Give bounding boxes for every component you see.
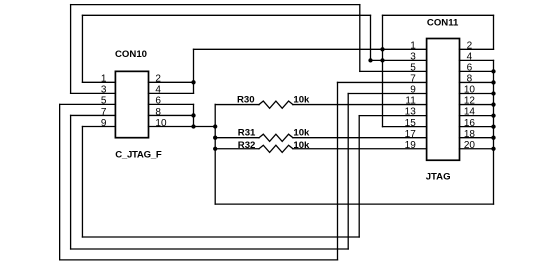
svg-text:6: 6 [467, 63, 473, 74]
svg-text:CON11: CON11 [427, 17, 459, 28]
svg-text:9: 9 [410, 85, 416, 96]
svg-text:5: 5 [410, 63, 416, 74]
svg-text:13: 13 [405, 107, 417, 118]
svg-text:2: 2 [155, 74, 161, 85]
svg-text:3: 3 [410, 51, 416, 62]
svg-text:R31: R31 [238, 128, 256, 139]
svg-text:19: 19 [405, 140, 417, 151]
svg-text:8: 8 [467, 74, 473, 85]
svg-text:20: 20 [464, 140, 476, 151]
svg-text:2: 2 [467, 40, 473, 51]
svg-text:CON10: CON10 [115, 49, 147, 60]
svg-text:5: 5 [101, 96, 107, 107]
svg-text:8: 8 [155, 107, 161, 118]
svg-text:12: 12 [464, 96, 476, 107]
svg-text:14: 14 [464, 107, 476, 118]
svg-text:R30: R30 [237, 94, 255, 105]
svg-text:4: 4 [467, 51, 473, 62]
svg-text:10k: 10k [293, 140, 310, 151]
svg-text:18: 18 [464, 129, 476, 140]
svg-text:10k: 10k [293, 94, 310, 105]
svg-text:7: 7 [101, 107, 107, 118]
svg-text:10k: 10k [293, 128, 310, 139]
svg-text:16: 16 [464, 118, 476, 129]
svg-text:7: 7 [410, 74, 416, 85]
svg-text:15: 15 [405, 118, 417, 129]
svg-text:10: 10 [155, 118, 167, 129]
svg-text:11: 11 [405, 96, 416, 107]
svg-text:JTAG: JTAG [426, 172, 451, 183]
svg-text:R32: R32 [238, 140, 256, 151]
svg-text:3: 3 [101, 85, 107, 96]
svg-text:1: 1 [101, 74, 107, 85]
svg-text:9: 9 [101, 118, 107, 129]
svg-text:6: 6 [155, 96, 161, 107]
svg-text:4: 4 [155, 85, 161, 96]
svg-text:C_JTAG_F: C_JTAG_F [115, 150, 162, 161]
svg-text:17: 17 [405, 129, 417, 140]
svg-text:1: 1 [410, 40, 416, 51]
svg-text:10: 10 [464, 85, 476, 96]
